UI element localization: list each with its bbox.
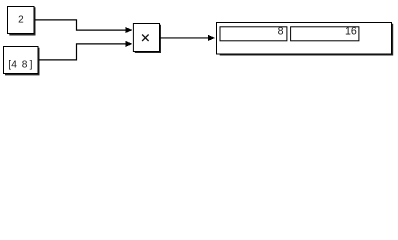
svg-text:8: 8 bbox=[278, 26, 284, 38]
wire from C2 to product input 2 bbox=[39, 41, 133, 60]
display block D1 outer bbox=[217, 23, 394, 56]
arrowhead into display bbox=[208, 35, 215, 41]
svg-text:16: 16 bbox=[345, 26, 357, 38]
svg-text:4: 4 bbox=[11, 60, 17, 71]
Simulink-style block diagram: two constants into a product block into a display bbox=[0, 0, 398, 83]
constant block C2 value [4 8] bbox=[4, 47, 40, 76]
display field 2 value 16 bbox=[291, 26, 359, 41]
svg-text:]: ] bbox=[30, 60, 33, 71]
display field 1 value 8 bbox=[220, 26, 287, 41]
svg-text:2: 2 bbox=[18, 15, 24, 26]
wire from product output to display bbox=[160, 35, 215, 41]
multiply symbol bbox=[142, 35, 149, 42]
constant block C1 value 2 bbox=[8, 7, 36, 36]
arrowhead into product input 1 bbox=[125, 27, 132, 33]
arrowhead into product input 2 bbox=[125, 41, 132, 47]
product block P1 bbox=[133, 24, 161, 54]
svg-text:8: 8 bbox=[22, 60, 28, 71]
wire from C1 to product input 1 bbox=[35, 20, 133, 33]
